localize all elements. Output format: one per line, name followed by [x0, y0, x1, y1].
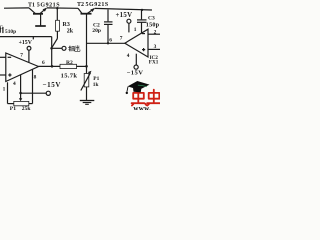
watermark logo graduation cap: [126, 81, 150, 94]
wire U2 output to T2 base: [87, 42, 125, 44]
potentiometer P1 1k: [81, 66, 92, 100]
wire feedback vertical: [51, 37, 53, 67]
svg-text:4: 4: [127, 53, 130, 59]
svg-text:T2: T2: [77, 2, 84, 8]
wire R3 diagonal to output node: [52, 39, 58, 48]
svg-text:15.7k: 15.7k: [61, 73, 78, 80]
terminal +15V right: [127, 19, 131, 32]
pin 4 wire U2: [135, 54, 137, 65]
pin 8 wire U1: [32, 69, 34, 103]
svg-text:150p: 150p: [146, 22, 160, 29]
node junction wiper: [19, 92, 22, 95]
capacitor C1: [0, 27, 3, 33]
svg-text:R3: R3: [63, 22, 70, 28]
transistor T1: [29, 8, 47, 26]
svg-text:+15V: +15V: [19, 40, 33, 46]
transistor T2: [78, 8, 95, 14]
node A: [50, 47, 53, 50]
pin 3 wire: [148, 48, 160, 50]
potentiometer P1 25k body: [8, 101, 33, 105]
svg-text:R2: R2: [66, 60, 73, 66]
wire node A to output terminal: [52, 47, 62, 49]
node junction C2 bottom: [107, 42, 109, 44]
pin 7 wire U1: [28, 50, 30, 62]
svg-text:2: 2: [154, 29, 157, 35]
svg-text:8: 8: [34, 75, 37, 81]
pin 4 wire U1: [20, 75, 22, 93]
wire T2 emitter rail right: [95, 8, 152, 10]
ground: [80, 101, 95, 105]
wire inverting input stub: [0, 56, 6, 58]
svg-text:P1: P1: [10, 106, 16, 110]
svg-text:7: 7: [20, 53, 23, 59]
terminal -15V right: [134, 65, 138, 69]
op-amp U1: [6, 53, 39, 82]
potentiometer P1 25k wiper: [19, 93, 22, 101]
svg-text:−15V: −15V: [127, 70, 144, 77]
resistor R2: [60, 64, 87, 68]
watermark chongchong characters: [132, 90, 162, 106]
resistor R3: [56, 8, 60, 38]
svg-text:2k: 2k: [67, 29, 74, 35]
svg-text:FX1: FX1: [149, 60, 159, 66]
terminal output: [62, 46, 66, 50]
pin 2 wire: [148, 33, 160, 35]
svg-text:20p: 20p: [92, 28, 101, 34]
svg-text:6: 6: [42, 60, 45, 66]
svg-text:−15V: −15V: [43, 81, 61, 89]
capacitor C3: [137, 10, 147, 33]
svg-text:1: 1: [3, 87, 6, 93]
node junction R3 top: [56, 7, 58, 9]
label output (shuchu): [68, 45, 80, 51]
pin 1 wire U1: [7, 82, 9, 103]
wire C1 rail: [0, 36, 52, 38]
svg-text:C: C: [0, 26, 3, 31]
wire non-inverting input stub: [0, 74, 6, 76]
wire T1 to T2: [47, 7, 78, 9]
node junction T2 base / R2: [85, 65, 88, 68]
wire top-left rail: [4, 7, 29, 9]
wire U1 output: [39, 65, 61, 67]
svg-text:1k: 1k: [93, 82, 99, 88]
op-amp U2: [125, 29, 148, 57]
svg-text:+15V: +15V: [116, 12, 133, 19]
junction stub: [32, 37, 34, 40]
node B: [51, 65, 54, 68]
node junction C3: [141, 9, 143, 11]
svg-text:T1: T1: [28, 3, 35, 9]
svg-text:www,: www,: [133, 105, 151, 110]
svg-text:7: 7: [120, 35, 123, 41]
svg-text:510p: 510p: [5, 29, 16, 35]
svg-text:25k: 25k: [22, 106, 32, 110]
terminal -15V left: [46, 91, 50, 95]
svg-text:1: 1: [134, 27, 137, 33]
wire T2 base down: [86, 14, 88, 67]
svg-text:5G921S: 5G921S: [86, 2, 109, 8]
svg-text:6: 6: [109, 38, 112, 44]
terminal +15V left: [27, 46, 31, 50]
svg-text:4: 4: [13, 81, 16, 87]
svg-text:3: 3: [154, 44, 157, 50]
capacitor C2: [104, 10, 113, 44]
wire pin4 to -15V terminal: [21, 92, 47, 94]
